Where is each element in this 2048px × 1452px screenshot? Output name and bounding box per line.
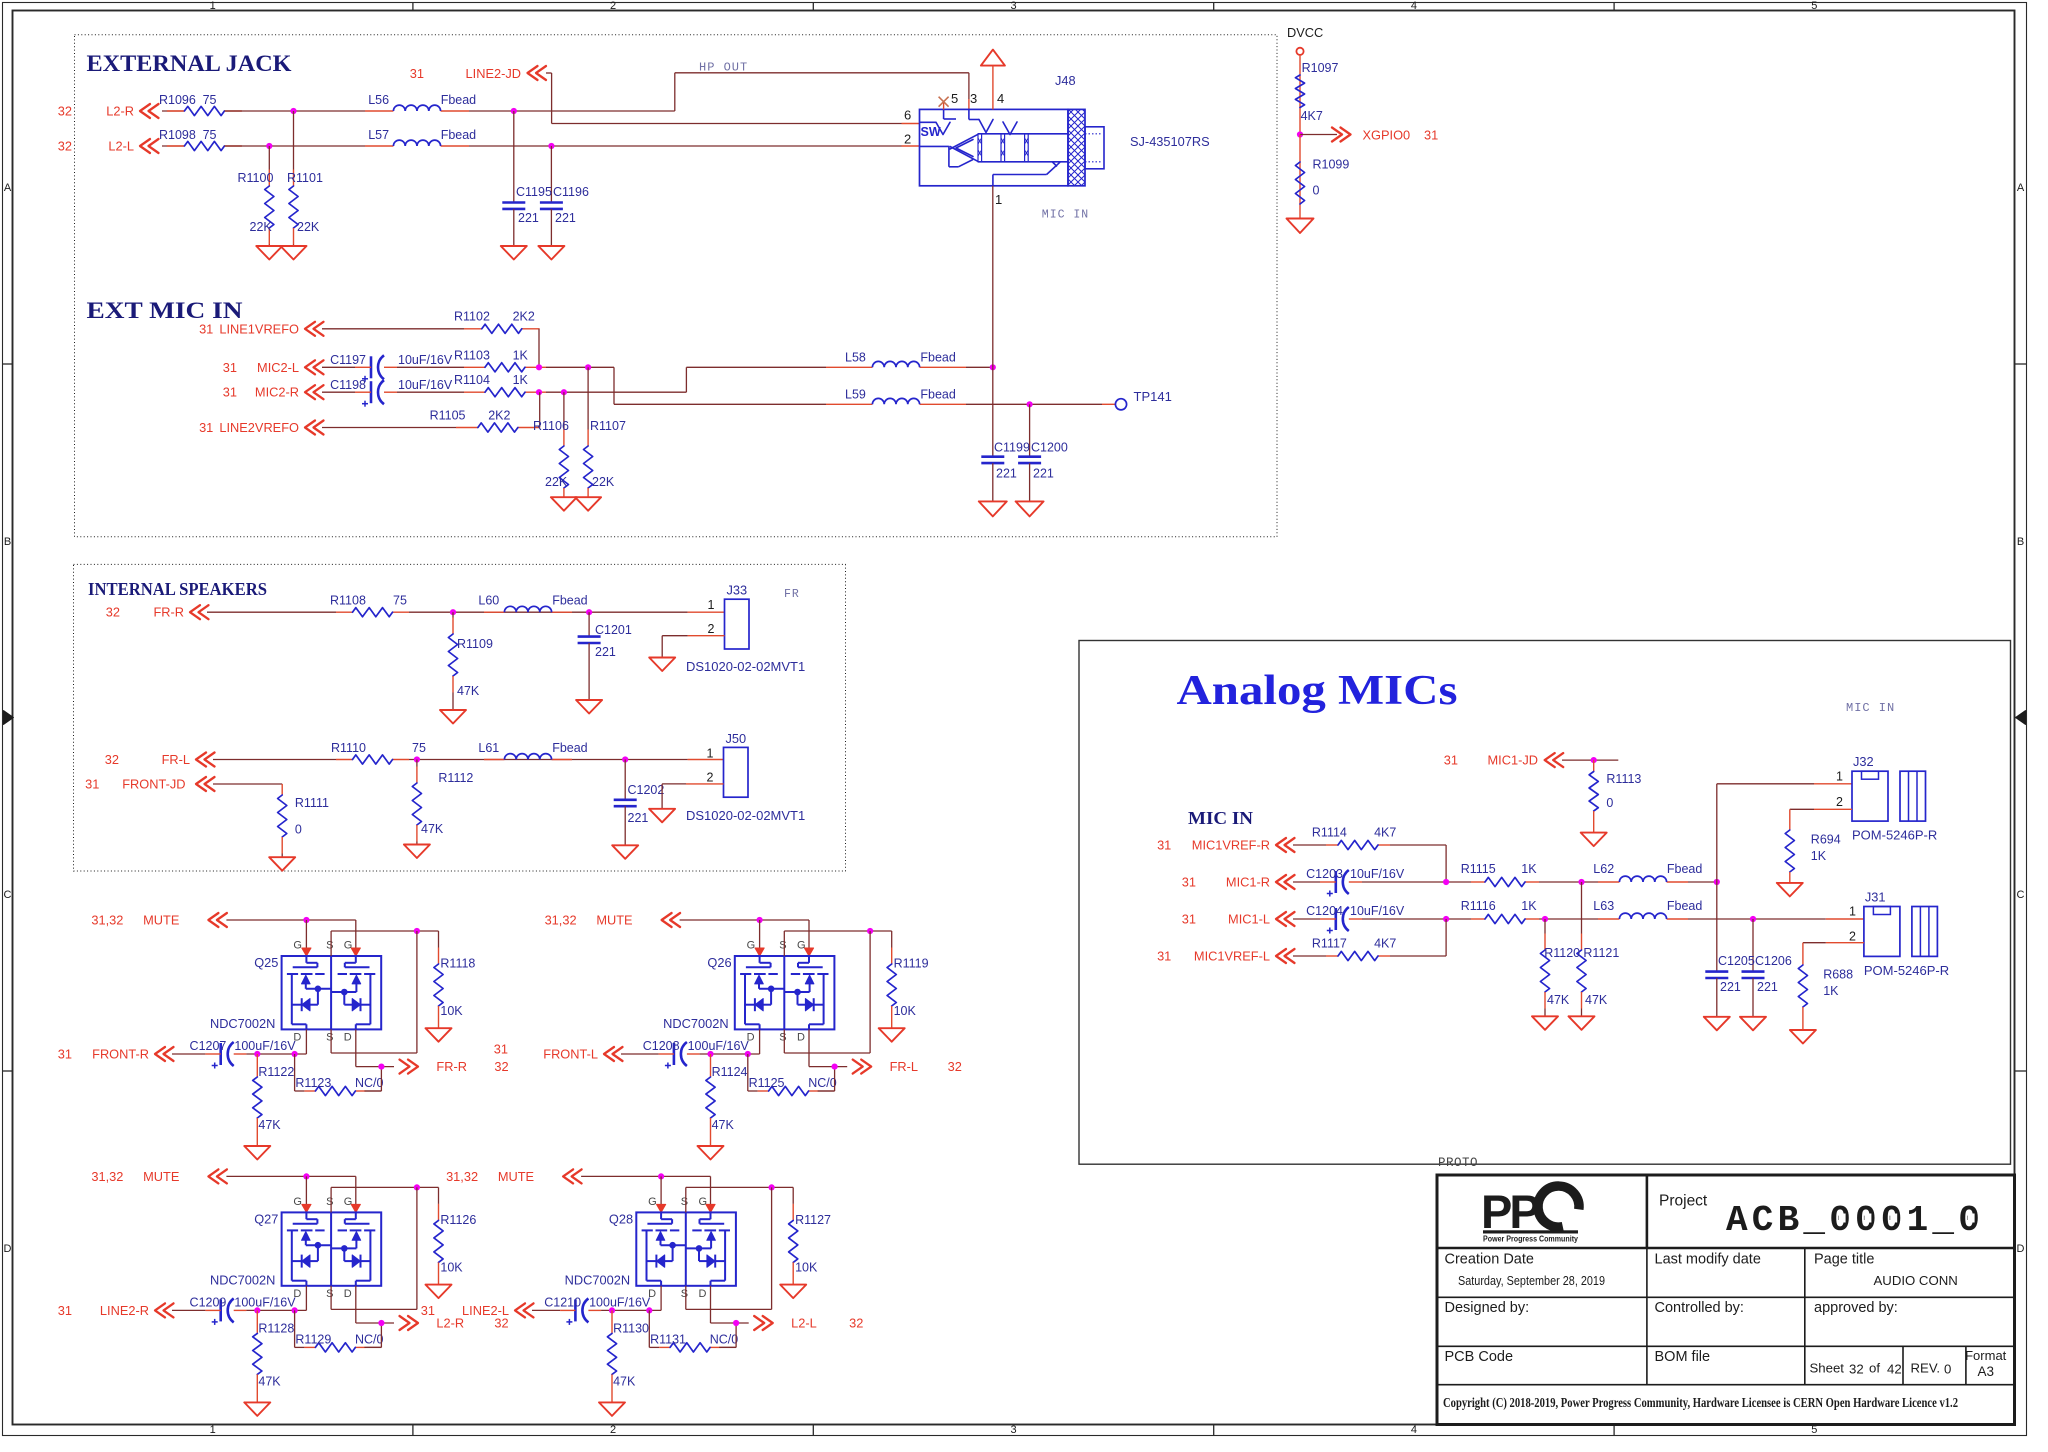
svg-text:POM-5246P-R: POM-5246P-R: [1852, 828, 1937, 843]
svg-text:C1206: C1206: [1755, 954, 1792, 968]
svg-text:5: 5: [951, 91, 958, 106]
svg-text:32: 32: [948, 1059, 962, 1074]
svg-text:L57: L57: [368, 128, 389, 142]
svg-text:221: 221: [595, 645, 616, 659]
svg-text:AUDIO CONN: AUDIO CONN: [1874, 1273, 1958, 1288]
svg-text:EXT MIC IN: EXT MIC IN: [87, 298, 243, 324]
svg-text:2: 2: [610, 0, 616, 12]
svg-text:2K2: 2K2: [513, 310, 535, 324]
svg-text:42: 42: [1887, 1362, 1902, 1377]
svg-text:Format: Format: [1965, 1348, 2007, 1363]
svg-text:221: 221: [996, 467, 1017, 481]
svg-text:31: 31: [1182, 912, 1196, 927]
svg-text:Fbead: Fbead: [920, 388, 955, 402]
svg-text:R1130: R1130: [613, 1321, 649, 1335]
svg-text:32: 32: [58, 104, 72, 119]
svg-text:C1200: C1200: [1031, 441, 1068, 455]
svg-text:S: S: [779, 940, 786, 952]
svg-text:1: 1: [708, 598, 715, 612]
svg-text:R1096: R1096: [159, 93, 196, 107]
svg-text:R1110: R1110: [331, 741, 366, 755]
svg-text:32: 32: [494, 1059, 508, 1074]
svg-text:1K: 1K: [1823, 984, 1839, 998]
svg-text:31: 31: [1182, 875, 1196, 890]
svg-text:Sheet: Sheet: [1810, 1361, 1845, 1376]
svg-text:A3: A3: [1977, 1364, 1994, 1379]
svg-text:Copyright (C) 2018-2019, Power: Copyright (C) 2018-2019, Power Progress …: [1443, 1395, 1958, 1410]
svg-text:10uF/16V: 10uF/16V: [1350, 904, 1405, 918]
svg-text:1: 1: [1849, 905, 1856, 919]
svg-text:G: G: [797, 940, 806, 952]
svg-text:XGPIO0: XGPIO0: [1363, 128, 1411, 143]
svg-text:3: 3: [1010, 1424, 1016, 1436]
svg-text:31: 31: [1444, 753, 1458, 768]
svg-text:2K2: 2K2: [488, 409, 510, 423]
svg-text:DVCC: DVCC: [1287, 25, 1323, 40]
svg-text:31: 31: [421, 1303, 435, 1318]
svg-text:FR-R: FR-R: [436, 1059, 467, 1074]
svg-text:31: 31: [223, 385, 237, 400]
svg-text:LINE2-R: LINE2-R: [100, 1303, 149, 1318]
svg-text:32: 32: [1849, 1362, 1864, 1377]
svg-text:LINE2-JD: LINE2-JD: [466, 66, 521, 81]
svg-text:1: 1: [707, 746, 714, 760]
svg-text:Page title: Page title: [1814, 1252, 1874, 1268]
svg-text:75: 75: [393, 594, 407, 608]
svg-text:R688: R688: [1823, 968, 1853, 982]
svg-text:C1208: C1208: [643, 1039, 680, 1053]
svg-text:S: S: [326, 940, 333, 952]
svg-text:47K: 47K: [613, 1374, 636, 1388]
svg-text:R1109: R1109: [457, 637, 493, 651]
svg-text:Q25: Q25: [254, 955, 278, 970]
svg-text:C: C: [4, 889, 12, 901]
svg-text:L2-R: L2-R: [106, 104, 134, 119]
svg-text:75: 75: [203, 128, 217, 142]
svg-text:LINE1VREFO: LINE1VREFO: [219, 321, 299, 336]
svg-text:C1198: C1198: [330, 378, 366, 392]
svg-text:NDC7002N: NDC7002N: [663, 1016, 728, 1031]
svg-text:L2-R: L2-R: [436, 1316, 464, 1331]
svg-text:S: S: [779, 1032, 786, 1044]
svg-text:R1100: R1100: [238, 171, 274, 185]
svg-text:10K: 10K: [440, 1004, 463, 1018]
svg-text:31,32: 31,32: [91, 913, 123, 928]
svg-text:FRONT-JD: FRONT-JD: [122, 777, 185, 792]
svg-text:Fbead: Fbead: [1667, 899, 1702, 913]
svg-text:approved by:: approved by:: [1814, 1300, 1898, 1316]
svg-text:C1195: C1195: [516, 185, 552, 199]
svg-text:22K: 22K: [592, 475, 615, 489]
svg-text:R1097: R1097: [1302, 61, 1339, 75]
svg-text:31: 31: [494, 1042, 508, 1057]
svg-text:R1125: R1125: [749, 1076, 785, 1090]
svg-text:MIC IN: MIC IN: [1188, 808, 1253, 828]
svg-text:S: S: [326, 1288, 333, 1300]
svg-text:R694: R694: [1811, 833, 1841, 847]
svg-text:S: S: [326, 1196, 333, 1208]
svg-text:75: 75: [203, 93, 217, 107]
svg-text:Controlled by:: Controlled by:: [1655, 1300, 1744, 1316]
svg-text:10K: 10K: [795, 1260, 818, 1274]
svg-text:100uF/16V: 100uF/16V: [234, 1039, 296, 1053]
svg-text:0: 0: [295, 823, 302, 837]
svg-text:ACB_0001_0: ACB_0001_0: [1726, 1200, 1984, 1241]
svg-text:L63: L63: [1593, 899, 1614, 913]
svg-text:D: D: [344, 1032, 352, 1044]
svg-text:4K7: 4K7: [1374, 936, 1396, 950]
svg-text:2: 2: [1849, 930, 1856, 944]
svg-text:L60: L60: [478, 594, 499, 608]
svg-text:R1101: R1101: [287, 171, 323, 185]
svg-text:10uF/16V: 10uF/16V: [398, 353, 453, 367]
svg-text:J48: J48: [1055, 73, 1076, 88]
svg-text:G: G: [344, 940, 353, 952]
svg-text:47K: 47K: [1585, 993, 1608, 1007]
svg-text:MUTE: MUTE: [596, 913, 632, 928]
svg-text:R1117: R1117: [1312, 936, 1347, 950]
svg-text:Saturday, September 28, 2019: Saturday, September 28, 2019: [1458, 1273, 1605, 1288]
svg-text:L61: L61: [478, 741, 499, 755]
svg-text:2: 2: [708, 622, 715, 636]
svg-text:Designed by:: Designed by:: [1445, 1300, 1530, 1316]
svg-text:R1124: R1124: [712, 1065, 748, 1079]
svg-text:B: B: [2017, 536, 2024, 548]
svg-text:R1108: R1108: [330, 594, 366, 608]
svg-text:Q27: Q27: [254, 1211, 278, 1226]
svg-text:L62: L62: [1593, 862, 1614, 876]
svg-text:L2-L: L2-L: [108, 139, 134, 154]
svg-text:1: 1: [1836, 769, 1843, 783]
svg-text:C1205: C1205: [1718, 954, 1755, 968]
svg-text:C1201: C1201: [595, 623, 632, 637]
svg-text:4: 4: [1411, 1424, 1417, 1436]
svg-text:BOM file: BOM file: [1655, 1349, 1711, 1365]
svg-text:4K7: 4K7: [1301, 109, 1323, 123]
svg-text:R1127: R1127: [795, 1213, 831, 1227]
svg-text:0: 0: [1313, 184, 1320, 198]
svg-text:1K: 1K: [513, 373, 529, 387]
svg-text:Project: Project: [1659, 1193, 1708, 1210]
svg-text:S: S: [681, 1288, 688, 1300]
svg-text:31,32: 31,32: [446, 1169, 478, 1184]
svg-text:D: D: [699, 1288, 707, 1300]
svg-text:R1126: R1126: [440, 1213, 476, 1227]
svg-text:MIC IN: MIC IN: [1042, 209, 1089, 222]
svg-text:FR-L: FR-L: [162, 752, 190, 767]
svg-text:B: B: [4, 536, 11, 548]
svg-text:1K: 1K: [1521, 862, 1537, 876]
svg-text:221: 221: [555, 211, 576, 225]
svg-text:221: 221: [1757, 980, 1778, 994]
svg-text:31: 31: [1424, 128, 1438, 143]
svg-text:10K: 10K: [440, 1260, 463, 1274]
svg-text:HP OUT: HP OUT: [699, 61, 748, 75]
svg-text:4: 4: [997, 91, 1004, 106]
svg-text:Q26: Q26: [707, 955, 731, 970]
svg-text:L58: L58: [845, 351, 866, 365]
svg-text:FR-L: FR-L: [890, 1059, 918, 1074]
svg-text:G: G: [747, 940, 756, 952]
svg-text:MIC1-JD: MIC1-JD: [1488, 753, 1538, 768]
svg-text:47K: 47K: [1547, 993, 1570, 1007]
svg-text:NC/0: NC/0: [355, 1332, 384, 1346]
svg-text:of: of: [1869, 1361, 1880, 1376]
svg-text:C1203: C1203: [1306, 867, 1343, 881]
svg-text:L2-L: L2-L: [791, 1316, 817, 1331]
svg-text:221: 221: [628, 811, 649, 825]
svg-text:R1107: R1107: [590, 419, 626, 433]
svg-text:47K: 47K: [258, 1374, 281, 1388]
svg-text:22K: 22K: [250, 220, 273, 234]
svg-text:NC/0: NC/0: [710, 1332, 739, 1346]
svg-text:2: 2: [1836, 795, 1843, 809]
svg-text:J32: J32: [1853, 754, 1874, 769]
svg-text:R1128: R1128: [258, 1321, 294, 1335]
svg-text:R1112: R1112: [438, 771, 473, 785]
svg-text:R1115: R1115: [1461, 862, 1496, 876]
svg-text:SJ-435107RS: SJ-435107RS: [1130, 134, 1210, 149]
svg-text:FR-R: FR-R: [153, 605, 184, 620]
svg-text:2: 2: [904, 132, 911, 147]
svg-text:2: 2: [707, 770, 714, 784]
svg-text:LINE2VREFO: LINE2VREFO: [219, 420, 299, 435]
svg-text:C1209: C1209: [190, 1295, 227, 1309]
svg-text:47K: 47K: [421, 822, 444, 836]
svg-text:MIC IN: MIC IN: [1846, 701, 1895, 715]
svg-text:4: 4: [1411, 0, 1417, 12]
svg-text:221: 221: [1720, 980, 1741, 994]
svg-text:C1202: C1202: [628, 783, 665, 797]
svg-text:221: 221: [518, 211, 539, 225]
svg-text:1: 1: [210, 0, 216, 12]
svg-text:S: S: [326, 1032, 333, 1044]
svg-text:4K7: 4K7: [1374, 825, 1396, 839]
svg-text:R1104: R1104: [454, 373, 490, 387]
svg-text:R1122: R1122: [258, 1065, 294, 1079]
svg-text:LINE2-L: LINE2-L: [462, 1303, 509, 1318]
svg-text:75: 75: [412, 741, 426, 755]
svg-text:J50: J50: [726, 731, 747, 746]
svg-text:NC/0: NC/0: [355, 1076, 384, 1090]
svg-text:TP141: TP141: [1134, 389, 1172, 404]
svg-text:J31: J31: [1865, 890, 1886, 905]
svg-text:1K: 1K: [1811, 849, 1827, 863]
svg-text:Creation Date: Creation Date: [1445, 1252, 1534, 1268]
svg-text:G: G: [293, 940, 302, 952]
svg-text:R1116: R1116: [1461, 899, 1496, 913]
svg-text:R1103: R1103: [454, 348, 490, 362]
svg-text:J33: J33: [727, 583, 748, 598]
svg-text:DS1020-02-02MVT1: DS1020-02-02MVT1: [686, 659, 805, 674]
svg-text:C1199: C1199: [994, 441, 1030, 455]
svg-text:47K: 47K: [258, 1118, 281, 1132]
svg-text:SW: SW: [921, 125, 941, 139]
svg-text:R1131: R1131: [650, 1332, 686, 1346]
svg-text:D: D: [4, 1243, 12, 1255]
svg-text:R1120: R1120: [1544, 946, 1580, 960]
svg-text:S: S: [681, 1196, 688, 1208]
svg-text:NC/0: NC/0: [808, 1076, 837, 1090]
svg-text:31: 31: [58, 1047, 72, 1062]
svg-text:R1099: R1099: [1313, 158, 1350, 172]
svg-text:32: 32: [849, 1316, 863, 1331]
svg-text:PCB Code: PCB Code: [1445, 1349, 1514, 1365]
svg-text:NDC7002N: NDC7002N: [210, 1016, 275, 1031]
svg-text:Analog MICs: Analog MICs: [1177, 668, 1458, 714]
svg-text:C1196: C1196: [553, 185, 589, 199]
svg-text:MIC1VREF-L: MIC1VREF-L: [1194, 949, 1270, 964]
svg-text:10K: 10K: [894, 1004, 917, 1018]
svg-text:NDC7002N: NDC7002N: [210, 1272, 275, 1287]
svg-text:FR: FR: [784, 588, 800, 601]
svg-text:R1102: R1102: [454, 310, 490, 324]
svg-text:NDC7002N: NDC7002N: [565, 1272, 630, 1287]
svg-text:R1111: R1111: [295, 796, 329, 810]
svg-text:D: D: [797, 1032, 805, 1044]
svg-text:PROTO: PROTO: [1438, 1156, 1478, 1170]
svg-text:D: D: [344, 1288, 352, 1300]
svg-text:G: G: [293, 1196, 302, 1208]
svg-text:PP: PP: [1481, 1185, 1539, 1238]
svg-text:FRONT-R: FRONT-R: [92, 1047, 149, 1062]
svg-text:32: 32: [106, 605, 120, 620]
svg-text:R1106: R1106: [533, 419, 569, 433]
svg-text:C1210: C1210: [544, 1295, 581, 1309]
svg-text:C1197: C1197: [330, 353, 366, 367]
svg-text:FRONT-L: FRONT-L: [543, 1047, 598, 1062]
svg-text:10uF/16V: 10uF/16V: [1350, 867, 1405, 881]
svg-text:Power Progress Community: Power Progress Community: [1483, 1234, 1578, 1244]
svg-text:R1098: R1098: [159, 128, 196, 142]
svg-text:R1118: R1118: [440, 957, 475, 971]
svg-text:A: A: [2017, 182, 2025, 194]
svg-text:1: 1: [210, 1424, 216, 1436]
svg-text:31,32: 31,32: [91, 1169, 123, 1184]
svg-text:G: G: [344, 1196, 353, 1208]
svg-text:MIC2-L: MIC2-L: [257, 360, 299, 375]
svg-text:3: 3: [1010, 0, 1016, 12]
svg-text:R1114: R1114: [1312, 825, 1347, 839]
svg-text:31: 31: [1157, 949, 1171, 964]
svg-text:R1113: R1113: [1606, 772, 1641, 786]
svg-text:Fbead: Fbead: [552, 594, 587, 608]
svg-text:0: 0: [1606, 796, 1613, 810]
svg-text:L59: L59: [845, 388, 866, 402]
svg-text:2: 2: [610, 1424, 616, 1436]
svg-text:C1207: C1207: [190, 1039, 227, 1053]
svg-text:C1204: C1204: [1306, 904, 1343, 918]
svg-text:31,32: 31,32: [545, 913, 577, 928]
svg-text:32: 32: [105, 752, 119, 767]
svg-text:47K: 47K: [712, 1118, 735, 1132]
svg-text:R1119: R1119: [894, 957, 929, 971]
svg-text:31: 31: [58, 1303, 72, 1318]
svg-text:32: 32: [58, 139, 72, 154]
svg-text:31: 31: [410, 66, 424, 81]
svg-text:10uF/16V: 10uF/16V: [398, 378, 453, 392]
svg-text:EXTERNAL JACK: EXTERNAL JACK: [87, 51, 293, 77]
svg-text:R1105: R1105: [430, 409, 466, 423]
svg-text:Fbead: Fbead: [552, 741, 587, 755]
svg-text:31: 31: [85, 777, 99, 792]
svg-text:R1121: R1121: [1583, 946, 1619, 960]
svg-text:L56: L56: [368, 93, 389, 107]
svg-text:Fbead: Fbead: [920, 351, 955, 365]
svg-text:Last modify date: Last modify date: [1655, 1252, 1761, 1268]
svg-text:G: G: [648, 1196, 657, 1208]
svg-text:100uF/16V: 100uF/16V: [688, 1039, 750, 1053]
svg-text:1: 1: [995, 192, 1002, 207]
svg-text:Fbead: Fbead: [1667, 862, 1702, 876]
svg-text:31: 31: [223, 360, 237, 375]
svg-text:31: 31: [199, 321, 213, 336]
svg-text:MUTE: MUTE: [143, 913, 179, 928]
svg-text:47K: 47K: [457, 684, 480, 698]
svg-text:6: 6: [904, 108, 911, 123]
svg-text:MIC2-R: MIC2-R: [255, 385, 299, 400]
svg-text:22K: 22K: [545, 475, 568, 489]
svg-text:Fbead: Fbead: [441, 128, 476, 142]
svg-text:1K: 1K: [513, 348, 529, 362]
svg-text:MUTE: MUTE: [498, 1169, 534, 1184]
svg-text:31: 31: [199, 420, 213, 435]
svg-text:C: C: [2017, 889, 2025, 901]
svg-text:3: 3: [970, 91, 977, 106]
svg-text:A: A: [4, 182, 12, 194]
svg-text:22K: 22K: [297, 220, 320, 234]
svg-text:100uF/16V: 100uF/16V: [589, 1295, 651, 1309]
svg-text:5: 5: [1811, 0, 1817, 12]
svg-text:D: D: [2017, 1243, 2025, 1255]
svg-text:REV.: REV.: [1911, 1361, 1941, 1376]
svg-text:MUTE: MUTE: [143, 1169, 179, 1184]
svg-text:0: 0: [1944, 1362, 1951, 1377]
svg-text:100uF/16V: 100uF/16V: [234, 1295, 296, 1309]
svg-text:R1129: R1129: [295, 1332, 331, 1346]
svg-text:INTERNAL SPEAKERS: INTERNAL SPEAKERS: [88, 579, 267, 599]
svg-text:MIC1-R: MIC1-R: [1226, 875, 1270, 890]
svg-text:221: 221: [1033, 467, 1054, 481]
svg-text:POM-5246P-R: POM-5246P-R: [1864, 963, 1949, 978]
svg-text:1K: 1K: [1521, 899, 1537, 913]
svg-text:Fbead: Fbead: [441, 93, 476, 107]
svg-text:Q28: Q28: [609, 1211, 633, 1226]
svg-text:MIC1VREF-R: MIC1VREF-R: [1192, 838, 1270, 853]
svg-text:G: G: [699, 1196, 708, 1208]
svg-text:MIC1-L: MIC1-L: [1228, 912, 1270, 927]
svg-text:31: 31: [1157, 838, 1171, 853]
svg-text:DS1020-02-02MVT1: DS1020-02-02MVT1: [686, 808, 805, 823]
svg-text:R1123: R1123: [295, 1076, 331, 1090]
